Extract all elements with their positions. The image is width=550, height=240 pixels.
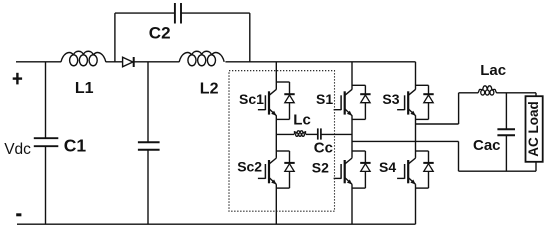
wire Lc to Cc bbox=[306, 133, 318, 135]
wire S2 top stub bbox=[352, 150, 365, 152]
wire Cc to S leg bbox=[321, 133, 352, 135]
svg-text:Cc: Cc bbox=[314, 140, 333, 157]
wire C2 top right bbox=[181, 12, 250, 14]
inductor Lac bbox=[478, 86, 497, 95]
diode D3 bbox=[423, 85, 433, 119]
transistor S2 bbox=[334, 158, 353, 185]
wire load top lead bbox=[535, 93, 537, 96]
wire C2 left vertical bbox=[114, 13, 116, 62]
svg-text:Vdc: Vdc bbox=[4, 141, 31, 158]
wire leg vertical segments bbox=[351, 62, 353, 224]
wire top output right bbox=[496, 92, 536, 94]
transistor Sc2 bbox=[258, 158, 277, 185]
transistor S1 bbox=[334, 89, 353, 116]
wire Sc2 bottom stub bbox=[276, 187, 289, 189]
diode D4 bbox=[423, 151, 433, 188]
wire middle branch lower bbox=[147, 150, 149, 224]
capacitor Cac bbox=[497, 129, 515, 135]
wire middle branch upper bbox=[147, 62, 149, 143]
wire S4 top stub bbox=[416, 150, 429, 152]
wire right down vertical bbox=[458, 141, 460, 171]
wire Cac lower bbox=[505, 135, 507, 171]
wire left branch lower bbox=[45, 146, 47, 224]
wire S2 bottom stub bbox=[352, 187, 365, 189]
svg-text:Sc1: Sc1 bbox=[239, 91, 264, 107]
wire S3 bottom stub bbox=[416, 118, 429, 120]
capacitor (dc-link) bbox=[138, 142, 160, 150]
svg-text:S4: S4 bbox=[379, 159, 396, 175]
wire S leg output bbox=[352, 140, 459, 142]
AC load box bbox=[526, 96, 543, 162]
wire S4 bottom stub bbox=[416, 187, 429, 189]
svg-text:S1: S1 bbox=[316, 91, 333, 107]
svg-text:AC Load: AC Load bbox=[526, 101, 541, 157]
svg-text:L2: L2 bbox=[200, 81, 219, 98]
transistor S3 bbox=[397, 89, 416, 116]
wire L2 to bridge bbox=[225, 61, 415, 63]
wire top bus left bbox=[16, 61, 61, 63]
diode Dc2 bbox=[284, 151, 294, 188]
wire leg vertical segments bbox=[275, 62, 277, 224]
wire bottom rail bbox=[17, 223, 416, 225]
inductor L2 bbox=[179, 51, 224, 66]
svg-text:Cac: Cac bbox=[473, 137, 501, 154]
svg-text:C2: C2 bbox=[149, 23, 171, 42]
transistor S4 bbox=[397, 158, 416, 185]
svg-text:Lac: Lac bbox=[480, 62, 506, 79]
wire S1 top stub bbox=[352, 84, 365, 86]
diode Dc1 bbox=[284, 82, 294, 119]
svg-text:C1: C1 bbox=[64, 136, 87, 156]
wire L1 to diode bbox=[106, 61, 123, 63]
wire load bottom lead bbox=[535, 162, 537, 171]
wire C2 top left bbox=[115, 12, 175, 14]
svg-text:Sc2: Sc2 bbox=[237, 158, 262, 174]
wire S1 bottom stub bbox=[352, 118, 365, 120]
wire C2 right vertical bbox=[249, 13, 251, 62]
capacitor C1 bbox=[34, 138, 59, 146]
wire top output left bbox=[459, 92, 479, 94]
svg-text:L1: L1 bbox=[75, 80, 94, 97]
svg-text:Lc: Lc bbox=[293, 112, 311, 129]
svg-text:S2: S2 bbox=[312, 159, 329, 175]
inductor Lc bbox=[294, 131, 306, 137]
wire diode to L2 bbox=[134, 61, 180, 63]
svg-text:S3: S3 bbox=[382, 91, 399, 107]
capacitor C2 bbox=[175, 3, 181, 24]
wire left branch upper bbox=[45, 62, 47, 138]
diode D2 bbox=[360, 151, 370, 188]
wire Sc1 top stub bbox=[276, 81, 289, 83]
diode D1 bbox=[123, 57, 134, 67]
node + terminal bbox=[13, 73, 22, 85]
capacitor Cc bbox=[318, 128, 321, 139]
wire right up vertical bbox=[458, 93, 460, 124]
wire Sc1 bottom stub bbox=[276, 118, 289, 120]
wire Cac upper bbox=[505, 93, 507, 129]
transistor Sc1 bbox=[258, 89, 277, 116]
wire Sc2 top stub bbox=[276, 150, 289, 152]
wire Sc mid to Lc bbox=[276, 133, 294, 135]
inductor L1 bbox=[61, 51, 106, 66]
diode D1 bbox=[360, 85, 370, 119]
dotted box (auxiliary circuit) bbox=[229, 71, 335, 212]
wire S3 top stub bbox=[416, 84, 429, 86]
wire bottom output bbox=[459, 170, 537, 172]
node - terminal bbox=[16, 213, 21, 216]
wire leg vertical segments bbox=[415, 62, 417, 224]
wire S3 mid rail bbox=[416, 123, 459, 125]
